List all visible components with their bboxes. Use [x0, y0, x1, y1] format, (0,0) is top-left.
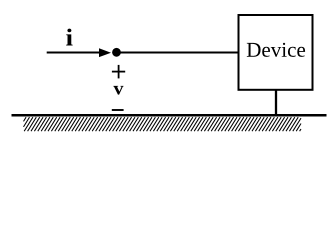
arrowhead of current arrow	[99, 48, 111, 57]
label i (current)	[66, 29, 72, 46]
ground plane (ground symbol line)	[12, 114, 327, 117]
wire: device box to ground plane	[275, 90, 277, 116]
label Device	[247, 43, 305, 57]
wire: current arrow shaft	[47, 52, 101, 54]
node A (junction dot)	[112, 48, 121, 57]
label v (voltage)	[113, 86, 123, 95]
plus sign (voltage polarity +)	[112, 65, 125, 79]
wire: node to device box	[120, 52, 238, 54]
device box	[239, 15, 313, 90]
ground hatching	[24, 117, 302, 131]
minus sign (voltage polarity -)	[112, 109, 124, 111]
